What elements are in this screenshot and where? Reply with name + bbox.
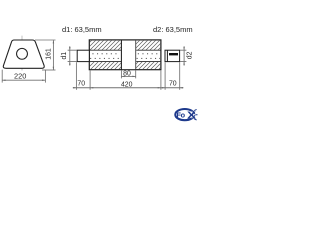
svg-text:80: 80 <box>123 71 131 78</box>
svg-text:d2: d2 <box>187 51 194 59</box>
svg-text:d1: 63,5mm: d1: 63,5mm <box>62 25 102 34</box>
svg-text:d1: d1 <box>61 52 68 60</box>
svg-text:220: 220 <box>14 72 26 81</box>
svg-text:Fo: Fo <box>177 110 186 119</box>
svg-text:70: 70 <box>169 81 177 88</box>
svg-text:d2: 63,5mm: d2: 63,5mm <box>153 25 193 34</box>
svg-text:161: 161 <box>46 48 53 60</box>
svg-text:420: 420 <box>121 81 133 88</box>
svg-text:70: 70 <box>77 81 85 88</box>
